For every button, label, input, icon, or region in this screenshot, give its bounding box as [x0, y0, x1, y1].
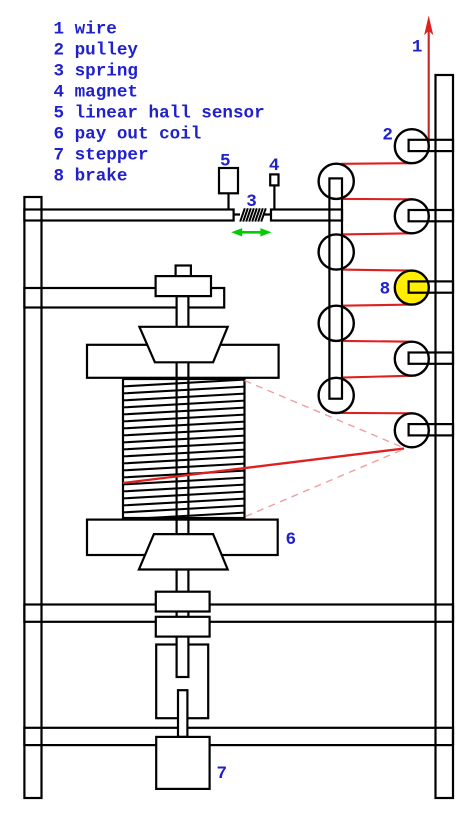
- pulley 5: [395, 342, 429, 376]
- svg-text:4: 4: [269, 156, 280, 176]
- coil winding hatch: [123, 380, 245, 520]
- svg-text:7 stepper: 7 stepper: [54, 146, 149, 166]
- inner pulley 3: [319, 306, 354, 341]
- hall sensor stem: [227, 193, 229, 209]
- spindle bearing block: [156, 276, 211, 296]
- svg-text:2 pulley: 2 pulley: [54, 41, 139, 61]
- green motion arrow: [231, 228, 271, 236]
- wire from bottom pulley to coil: [123, 449, 404, 484]
- top bar left segment: [24, 210, 233, 221]
- spindle cap: [176, 266, 191, 277]
- spool bottom flange trapezoid: [139, 534, 228, 569]
- stepper lower shaft: [178, 690, 187, 737]
- svg-text:4 magnet: 4 magnet: [54, 83, 138, 103]
- frame left column: [24, 197, 41, 798]
- horizontal bar B: [24, 728, 453, 745]
- dashed payout range lower: [246, 450, 404, 517]
- axle pulley 5: [409, 353, 453, 364]
- magnet 4 body: [270, 174, 278, 185]
- inner pulley 4: [319, 378, 354, 413]
- spool bottom plate: [87, 520, 278, 555]
- svg-text:5 linear hall sensor: 5 linear hall sensor: [54, 104, 265, 124]
- svg-text:3 spring: 3 spring: [54, 62, 138, 82]
- pulley carrier inner bar: [329, 178, 342, 398]
- inner pulley 1: [319, 164, 354, 199]
- wire segment inner pulley 3 to pulley 5: [341, 340, 412, 343]
- wire arrowhead: [424, 16, 433, 36]
- svg-text:8: 8: [380, 280, 391, 300]
- svg-text:2: 2: [382, 126, 393, 146]
- axle pulley 6: [409, 424, 453, 435]
- brake pulley 8 (yellow): [395, 271, 429, 305]
- spring 3 coils: [240, 208, 266, 221]
- stepper motor 7 box: [156, 737, 209, 789]
- dashed payout range upper: [245, 381, 404, 448]
- top bar right segment: [271, 210, 342, 221]
- pulley 2 (top outer): [395, 129, 429, 163]
- red wire from top pulley upward: [123, 30, 429, 483]
- svg-text:3: 3: [246, 192, 257, 212]
- svg-text:8 brake: 8 brake: [54, 167, 128, 187]
- axle pulley 3: [409, 210, 453, 221]
- wire segment brake pulley to inner pulley 3: [341, 305, 412, 306]
- horizontal bar 2 (spindle support): [24, 288, 224, 308]
- svg-text:5: 5: [220, 151, 231, 171]
- spindle shaft: [177, 296, 189, 677]
- legend text: [54, 20, 265, 187]
- inner pulley 2: [319, 234, 354, 269]
- coupling lower: [156, 617, 210, 637]
- frame right column: [436, 75, 454, 798]
- wire segment pulley 3 to inner pulley 2: [341, 233, 412, 234]
- wire segment inner pulley 2 to brake pulley: [341, 270, 412, 271]
- svg-text:6 pay out coil: 6 pay out coil: [54, 125, 202, 145]
- horizontal bar A: [24, 605, 453, 622]
- axle pulley 2: [409, 140, 453, 151]
- wire segment inner pulley 1 to pulley 3: [341, 198, 412, 201]
- spring 3 wire stubs: [234, 213, 271, 215]
- wire segment pulley2 to inner pulley 1: [341, 162, 412, 165]
- linear hall sensor 5 body: [219, 168, 238, 193]
- spool top flange trapezoid: [139, 327, 227, 363]
- stepper block: [156, 645, 208, 719]
- pay out coil 6 body: [123, 379, 245, 518]
- magnet stem: [273, 185, 275, 209]
- wire segment pulley 5 to inner pulley 4: [341, 376, 412, 378]
- svg-text:1: 1: [412, 38, 423, 58]
- svg-text:6: 6: [286, 530, 297, 550]
- axle brake pulley: [409, 281, 453, 292]
- svg-text:1 wire: 1 wire: [54, 20, 117, 40]
- pulley 6 (bottom outer): [395, 413, 429, 447]
- wire segment inner pulley 4 to pulley 6: [341, 412, 412, 414]
- coupling upper: [156, 592, 210, 612]
- spool top plate: [87, 345, 279, 378]
- svg-text:7: 7: [217, 764, 228, 784]
- pulley 3: [395, 199, 429, 233]
